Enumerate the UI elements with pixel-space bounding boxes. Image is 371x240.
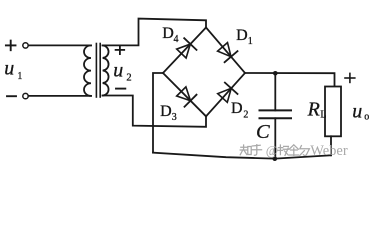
watermark: 知乎 @钱金为Weber <box>240 145 309 156</box>
wire (secondary bottom to bridge bottom vertex) <box>103 96 206 127</box>
label + (primary input polarity) <box>6 41 16 51</box>
svg-text:D: D <box>160 103 172 120</box>
wire (capacitor bottom lead) <box>274 118 276 158</box>
svg-text:u: u <box>352 100 362 122</box>
wire (primary bottom lead) <box>28 95 91 97</box>
wire (capacitor top lead) <box>274 73 276 110</box>
svg-text:4: 4 <box>174 34 179 45</box>
svg-text:D: D <box>236 27 248 44</box>
svg-text:2: 2 <box>243 110 248 121</box>
wire (bridge left vertex to negative rail) <box>153 73 163 153</box>
transformer T1 secondary winding <box>103 45 109 95</box>
wire (secondary top to bridge top vertex) <box>103 19 206 46</box>
wire (negative bottom rail) <box>153 153 331 159</box>
svg-text:1: 1 <box>248 36 253 47</box>
label + (output polarity) <box>345 73 355 82</box>
svg-text:Weber: Weber <box>310 143 348 159</box>
svg-text:3: 3 <box>172 112 177 123</box>
label - (secondary bottom polarity) <box>116 88 125 90</box>
diode D1 <box>218 43 238 63</box>
svg-text:1: 1 <box>17 71 22 82</box>
label - (primary bottom polarity) <box>7 95 16 97</box>
diode D4 <box>177 38 197 58</box>
node (junction dot on negative rail at capacitor) <box>273 156 278 161</box>
svg-text:u: u <box>4 58 14 80</box>
svg-text:R: R <box>307 99 320 121</box>
svg-text:u: u <box>113 59 123 81</box>
transformer T1 primary winding <box>84 45 91 95</box>
terminal circle (primary bottom) <box>23 93 28 98</box>
diode D3 <box>177 87 197 107</box>
resistor RL (rectangle) <box>325 87 341 137</box>
label + (secondary top polarity) <box>116 46 125 54</box>
terminal circle (primary top) <box>23 43 28 48</box>
capacitor C <box>260 110 292 118</box>
svg-text:@: @ <box>266 143 278 158</box>
wire (bridge diamond edge top-left) <box>163 28 206 74</box>
wire (primary top lead) <box>28 44 91 46</box>
svg-text:D: D <box>162 25 174 42</box>
transformer core <box>95 44 97 98</box>
wire (resistor bottom lead) <box>330 136 332 155</box>
wire (bridge right vertex positive rail) <box>245 73 335 87</box>
svg-text:C: C <box>256 121 270 143</box>
wire (bridge diamond edge bottom-right) <box>206 73 245 116</box>
svg-text:o: o <box>364 112 369 123</box>
wire (bridge diamond edge top-right) <box>206 28 245 74</box>
svg-text:2: 2 <box>126 72 131 83</box>
wire (bridge diamond edge bottom-left) <box>163 73 206 116</box>
node (junction dot on positive rail at capacitor) <box>273 71 278 76</box>
diode D2 <box>218 83 238 103</box>
svg-text:D: D <box>231 100 243 117</box>
svg-text:L: L <box>320 110 326 121</box>
